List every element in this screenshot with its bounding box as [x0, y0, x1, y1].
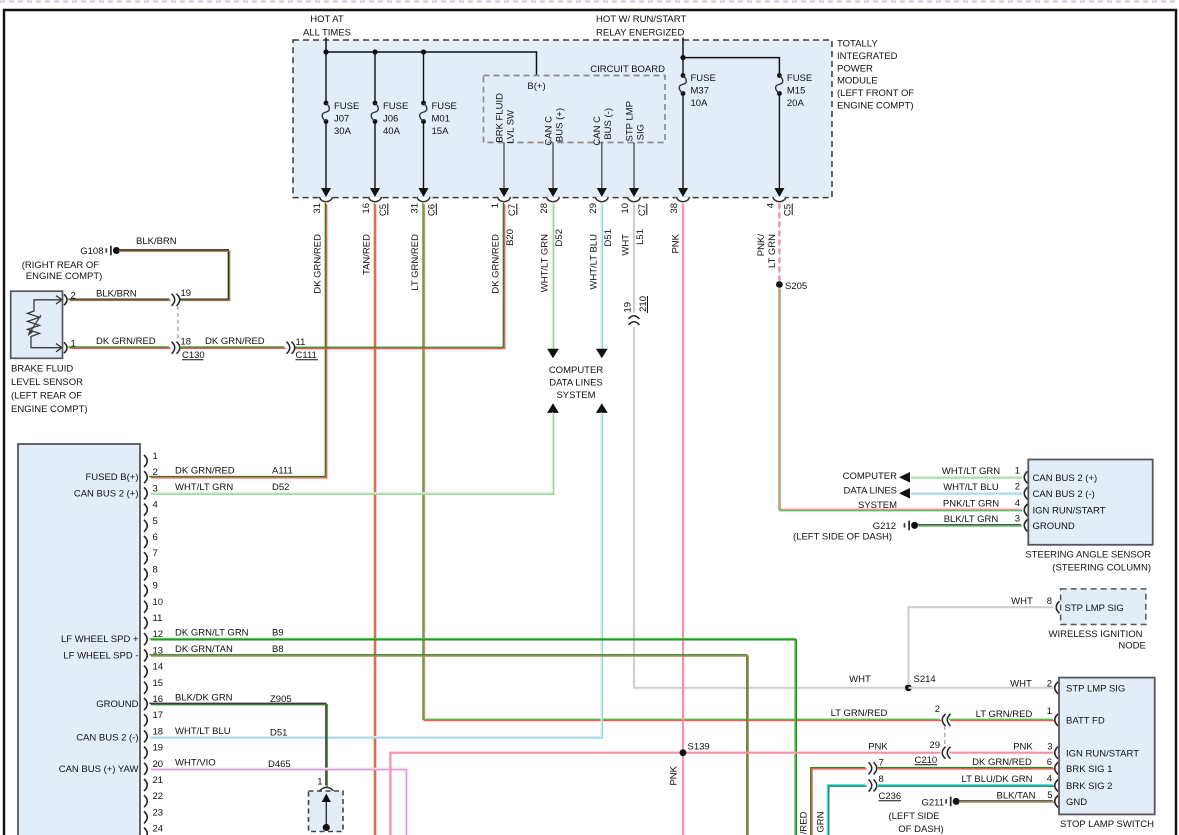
svg-text:LF WHEEL SPD -: LF WHEEL SPD -	[63, 650, 138, 661]
sensor pin 2 arrow and bracket	[56, 291, 76, 306]
svg-text:9: 9	[153, 581, 158, 592]
wire DK GRN/RED from C236 pin 7 to stop lamp BRK SIG 1	[877, 768, 1054, 769]
svg-text:DATA LINES: DATA LINES	[844, 485, 898, 496]
label GROUND	[1033, 521, 1075, 532]
svg-text:PNK: PNK	[1013, 742, 1033, 753]
svg-text:M15: M15	[787, 86, 805, 97]
wire label LT BLU/DK GRN	[962, 774, 1033, 785]
svg-text:TOTALLY: TOTALLY	[837, 39, 878, 50]
wire label PNK vertical below S139	[669, 765, 680, 785]
arrow down into computer data lines (WHT/LT BLU)	[596, 349, 608, 359]
svg-text:24: 24	[153, 824, 164, 835]
wire label LT GRN/RED vertical	[410, 234, 421, 291]
fuse M01 15A	[419, 52, 457, 197]
wire label DK GRN/TAN pin 13	[175, 644, 284, 655]
svg-text:IGN RUN/START: IGN RUN/START	[1033, 506, 1106, 517]
svg-text:WHT/LT BLU: WHT/LT BLU	[175, 726, 231, 737]
wire label DK GRN/RED vertical cut off	[799, 811, 810, 835]
wire DK GRN/TAN B8 from ABS pin 13 off page (LF wheel speed -)	[149, 655, 748, 835]
svg-text:LT GRN/RED: LT GRN/RED	[410, 234, 421, 291]
svg-text:PNK: PNK	[669, 765, 680, 785]
svg-text:WHT: WHT	[849, 674, 871, 685]
svg-text:4: 4	[153, 500, 158, 511]
wire label LT GRN/RED left of C210	[831, 708, 888, 719]
TIPM connector pin 31 C6	[410, 188, 438, 216]
ground G211	[888, 797, 959, 835]
wire label WHT left of S214	[849, 674, 871, 685]
TIPM connector pin 28	[539, 188, 560, 213]
label BRAKE FLUID LEVEL SENSOR	[11, 364, 88, 416]
pin label BRK FLUID LVL SW	[495, 93, 517, 144]
wire hot-at-all-times feed into TIPM	[325, 38, 327, 53]
svg-text:A111: A111	[272, 466, 293, 477]
wire WHT/LT GRN from TIPM pin 28 to computer data lines arrow	[552, 203, 553, 350]
svg-text:SYSTEM: SYSTEM	[858, 500, 897, 511]
svg-text:BLK/BRN: BLK/BRN	[136, 236, 177, 247]
wire label WHT at stop lamp switch	[1010, 679, 1032, 690]
splice S139	[680, 742, 710, 757]
pin label STP LMP SIG	[625, 101, 647, 141]
svg-text:(LEFT REAR OF: (LEFT REAR OF	[11, 391, 82, 402]
svg-text:WHT/LT BLU: WHT/LT BLU	[943, 482, 999, 493]
wire LT BLU/DK GRN from C236 pin 8 to stop lamp BRK SIG 2	[877, 785, 1054, 786]
svg-text:(STEERING COLUMN): (STEERING COLUMN)	[1052, 563, 1151, 574]
svg-text:28: 28	[539, 203, 550, 214]
wire label BLK/LT GRN	[944, 514, 999, 525]
wire BLK/DK GRN Z905 from ABS pin 16 to ground splice box	[149, 703, 327, 786]
svg-text:BLK/LT GRN: BLK/LT GRN	[944, 514, 999, 525]
circuit label D52 vertical	[554, 229, 565, 246]
svg-text:11: 11	[296, 337, 306, 348]
wire hot-run/start feed into TIPM	[682, 38, 684, 58]
svg-text:WHT: WHT	[1010, 679, 1032, 690]
svg-text:LT GRN/RED: LT GRN/RED	[976, 709, 1033, 720]
svg-text:10A: 10A	[691, 98, 709, 109]
label HOT W/ RUN/START RELAY ENERGIZED	[596, 14, 686, 39]
svg-text:14: 14	[153, 662, 164, 673]
wire WHT/LT GRN from computer data lines to ABS pin 3	[149, 412, 553, 494]
svg-text:TAN/RED: TAN/RED	[362, 234, 373, 275]
wire label WHT/LT GRN	[942, 466, 1000, 477]
connector C130 dashed link and label	[178, 306, 205, 361]
svg-text:STEERING ANGLE SENSOR: STEERING ANGLE SENSOR	[1025, 550, 1151, 561]
wire label WHT/LT BLU pin 18	[175, 726, 287, 739]
svg-text:7: 7	[153, 548, 158, 559]
wire label DK GRN/RED vertical at pin 31	[313, 234, 324, 294]
svg-text:LT GRN: LT GRN	[767, 234, 778, 268]
ground G212	[793, 521, 918, 543]
svg-text:HOT W/ RUN/START: HOT W/ RUN/START	[596, 14, 686, 25]
svg-text:FUSE: FUSE	[691, 73, 716, 84]
svg-text:CIRCUIT BOARD: CIRCUIT BOARD	[590, 64, 665, 75]
svg-text:18: 18	[181, 337, 192, 348]
wire WHT/LT GRN to steering sensor CAN BUS 2 (+)	[910, 477, 1022, 478]
wire PNK from TIPM pin 38 through S139 off page	[682, 204, 684, 835]
svg-text:29: 29	[929, 740, 940, 751]
svg-text:BRK SIG 1: BRK SIG 1	[1066, 764, 1112, 775]
svg-text:D52: D52	[272, 482, 289, 493]
wire BLK/LT GRN from G212 to steering sensor GROUND	[917, 525, 1022, 526]
label COMPUTER DATA LINES SYSTEM right	[843, 471, 898, 511]
ground G108	[22, 246, 120, 282]
svg-text:LEVEL SENSOR: LEVEL SENSOR	[11, 377, 83, 388]
svg-text:S214: S214	[914, 674, 936, 685]
label BRK SIG 2	[1066, 781, 1112, 792]
wire LT BLU/DK GRN from off page to C236 pin 8	[827, 785, 866, 835]
svg-text:G211: G211	[921, 798, 944, 809]
wire WHT/LT BLU to steering sensor CAN BUS 2 (-)	[910, 493, 1022, 494]
pin label CAN C BUS (-)	[592, 108, 614, 146]
wire WHT/VIO D465 from ABS pin 20 off page	[149, 768, 406, 835]
svg-text:10: 10	[620, 203, 631, 214]
svg-text:G212: G212	[873, 521, 896, 532]
svg-text:LF WHEEL SPD +: LF WHEEL SPD +	[61, 634, 139, 645]
label GND	[1066, 797, 1087, 808]
label STP LMP SIG	[1066, 684, 1125, 695]
svg-text:ENGINE COMPT): ENGINE COMPT)	[26, 271, 103, 282]
connector C210 dashed link	[944, 726, 946, 747]
svg-text:1: 1	[1015, 466, 1020, 477]
svg-text:PNK/: PNK/	[756, 234, 767, 257]
wire DK GRN/RED from TIPM pin 31 to ABS pin 2 (A111)	[149, 203, 326, 478]
svg-text:BUS (-): BUS (-)	[603, 108, 614, 140]
label TOTALLY INTEGRATED POWER MODULE	[837, 39, 914, 112]
module TIPM outline box	[293, 40, 832, 198]
svg-text:18: 18	[153, 726, 164, 737]
svg-text:5: 5	[1047, 790, 1052, 801]
wire label LT BLU/DK GRN vertical cut off	[815, 811, 826, 835]
sensor pin 1 arrow and bracket	[56, 339, 76, 354]
svg-text:31: 31	[410, 203, 421, 214]
wire DK GRN/RED sensor pin 1 to C130 pin 18	[68, 347, 170, 348]
TIPM connector pin 16 C5	[361, 188, 389, 216]
wire label PNK vertical upper	[670, 233, 681, 253]
wire WHT from S214 up to wireless ignition node STP LMP SIG	[908, 607, 1053, 685]
circuit board inner dashed box	[484, 76, 666, 143]
pin label CAN BUS 2 (+)	[74, 489, 139, 500]
svg-text:LT BLU/DK GRN: LT BLU/DK GRN	[962, 774, 1033, 785]
svg-text:OF DASH): OF DASH)	[898, 824, 943, 835]
wire branch to fuse M15	[683, 58, 779, 76]
wire label BLK/BRN upper	[136, 236, 177, 247]
svg-text:15: 15	[153, 678, 164, 689]
arrow up out of computer data lines (WHT/LT GRN)	[547, 403, 559, 413]
svg-text:CAN BUS 2 (+): CAN BUS 2 (+)	[1033, 473, 1098, 484]
pin label 3 IGN RUN/START	[1047, 742, 1052, 753]
svg-text:GND: GND	[1066, 797, 1087, 808]
wire DK GRN/RED from off page to C236 pin 7	[811, 768, 867, 835]
svg-text:BATT FD: BATT FD	[1066, 716, 1105, 727]
pin label CAN C BUS (+)	[544, 108, 566, 146]
svg-text:LVL SW: LVL SW	[506, 110, 517, 144]
label WIRELESS IGNITION NODE	[1049, 629, 1146, 652]
svg-text:G108: G108	[80, 246, 103, 257]
svg-text:DK GRN/RED: DK GRN/RED	[313, 234, 324, 294]
svg-text:B8: B8	[272, 644, 284, 655]
svg-text:CAN C: CAN C	[544, 116, 555, 146]
pin label 5 GND	[1047, 790, 1052, 801]
junction dot at fuse M37 feed	[680, 55, 685, 60]
wire PNK/LT GRN from S205 to steering angle sensor IGN RUN/START	[779, 287, 1022, 510]
svg-text:HOT AT: HOT AT	[310, 14, 344, 25]
svg-text:1: 1	[153, 451, 158, 462]
circuit label L51 vertical	[635, 229, 646, 245]
pin label 4 BRK SIG 2	[1047, 774, 1052, 785]
svg-text:S139: S139	[688, 742, 710, 753]
in-line connector C210 pin 19 on WHT wire	[623, 296, 649, 327]
svg-text:22: 22	[153, 791, 164, 802]
svg-text:BLK/TAN: BLK/TAN	[997, 791, 1036, 802]
svg-text:STP LMP SIG: STP LMP SIG	[1066, 684, 1125, 695]
pin label CAN BUS 2 (-)	[76, 732, 138, 743]
label STOP LAMP SWITCH	[1060, 819, 1154, 830]
svg-text:COMPUTER: COMPUTER	[843, 471, 898, 482]
svg-text:(RIGHT REAR OF: (RIGHT REAR OF	[22, 260, 100, 271]
wire label DK GRN/RED pin 2	[175, 466, 293, 477]
wire label BLK/DK GRN pin 16	[175, 693, 292, 706]
TIPM connector pin 4 C5	[766, 188, 794, 216]
label IGN RUN/START	[1033, 506, 1106, 517]
svg-text:B9: B9	[272, 628, 284, 639]
label HOT AT ALL TIMES	[303, 14, 351, 39]
wire PNK from C210 pin 29 to stop lamp switch IGN RUN/START	[950, 752, 1054, 754]
svg-text:11: 11	[153, 613, 163, 624]
arrow up out of computer data lines (WHT/LT BLU)	[596, 403, 608, 413]
svg-text:STOP LAMP SWITCH: STOP LAMP SWITCH	[1060, 819, 1154, 830]
wire TAN/RED from TIPM pin 16 off page bottom	[374, 203, 375, 835]
svg-text:2: 2	[935, 704, 940, 715]
svg-text:(LEFT FRONT OF: (LEFT FRONT OF	[837, 88, 914, 99]
wire PNK/LT GRN dashed from TIPM pin 4 C5 to splice S205	[778, 204, 781, 282]
svg-text:ALL TIMES: ALL TIMES	[303, 28, 351, 39]
svg-text:CAN BUS 2 (+): CAN BUS 2 (+)	[74, 489, 139, 500]
label STP LMP SIG (wireless node)	[1065, 603, 1124, 614]
svg-text:WHT: WHT	[1011, 596, 1033, 607]
label CAN BUS 2 (-)	[1033, 489, 1095, 500]
wire circuit board output can c bus+	[548, 143, 558, 197]
svg-text:8: 8	[879, 774, 884, 785]
svg-text:WHT/LT GRN: WHT/LT GRN	[540, 234, 551, 292]
wire label WHT/VIO pin 20	[175, 758, 291, 771]
svg-text:3: 3	[153, 483, 158, 494]
svg-text:NODE: NODE	[1118, 641, 1145, 652]
wire label BLK/TAN	[997, 791, 1036, 802]
svg-text:20A: 20A	[787, 98, 805, 109]
module ABS connector box	[18, 444, 140, 835]
svg-text:DK GRN/RED: DK GRN/RED	[972, 757, 1032, 768]
svg-text:19: 19	[153, 743, 164, 754]
label STEERING ANGLE SENSOR (STEERING COLUMN)	[1025, 550, 1151, 574]
junction dot bus at fuse M01	[421, 49, 426, 54]
svg-text:23: 23	[153, 807, 164, 818]
wire label DK GRN/RED	[972, 757, 1032, 768]
svg-text:J06: J06	[383, 114, 398, 125]
svg-text:CAN BUS 2 (-): CAN BUS 2 (-)	[76, 732, 138, 743]
circuit label B20	[505, 229, 516, 246]
wire label BLK/BRN lower	[96, 289, 137, 300]
svg-text:6: 6	[153, 532, 158, 543]
svg-text:M37: M37	[691, 86, 709, 97]
svg-text:BRK SIG 2: BRK SIG 2	[1066, 781, 1112, 792]
wire BLK/BRN from C130 pin 19 to sensor pin 2	[68, 299, 170, 300]
svg-text:D51: D51	[270, 727, 287, 738]
ABS connector pin brackets 1-24	[144, 451, 163, 835]
svg-text:PNK: PNK	[868, 742, 888, 753]
svg-text:BUS (+): BUS (+)	[555, 108, 566, 142]
fuse J07 30A	[321, 52, 359, 197]
svg-text:J07: J07	[334, 114, 349, 125]
wire label WHT/LT BLU	[943, 482, 999, 493]
pin label LF WHEEL SPD +	[61, 634, 139, 645]
svg-text:WHT/LT GRN: WHT/LT GRN	[175, 482, 233, 493]
svg-text:RELAY ENERGIZED: RELAY ENERGIZED	[596, 28, 684, 39]
wire DK GRN/RED C130 pin 18 to C111 pin 11	[179, 347, 285, 348]
svg-text:ENGINE COMPT): ENGINE COMPT)	[837, 101, 914, 112]
wire DK GRN/RED from TIPM pin 1 C7 (B20) to C111	[294, 203, 505, 349]
svg-text:FUSE: FUSE	[432, 101, 457, 112]
wireless node pin bracket	[1056, 601, 1059, 613]
svg-text:2: 2	[71, 291, 76, 302]
module wireless ignition node dashed box	[1061, 589, 1146, 625]
pin label 2 CAN BUS 2 (-)	[1015, 482, 1020, 493]
wire label WHT/LT BLU vertical	[589, 234, 600, 290]
svg-text:4: 4	[766, 203, 777, 208]
svg-text:BLK/BRN: BLK/BRN	[96, 289, 137, 300]
TIPM connector pin 1 C7	[490, 188, 518, 216]
pin label 8 STP LMP SIG	[1047, 596, 1052, 607]
svg-text:IGN RUN/START: IGN RUN/START	[1066, 748, 1139, 759]
pin label 2 STP LMP SIG	[1047, 679, 1052, 690]
pin label 4 IGN RUN/START	[1015, 498, 1020, 509]
svg-text:2: 2	[1015, 482, 1020, 493]
svg-text:15A: 15A	[432, 126, 450, 137]
splice S205	[776, 281, 807, 292]
TIPM connector pin 10 C7	[620, 188, 648, 216]
in-line connector C210 pin 2	[935, 704, 951, 726]
svg-text:DK GRN/TAN: DK GRN/TAN	[175, 644, 233, 655]
module stop lamp switch box	[1059, 678, 1155, 815]
svg-text:WHT/VIO: WHT/VIO	[175, 758, 216, 769]
svg-text:FUSED B(+): FUSED B(+)	[85, 472, 138, 483]
module steering angle sensor box	[1028, 460, 1152, 545]
svg-text:7: 7	[879, 757, 884, 768]
svg-text:5: 5	[153, 516, 158, 527]
circuit label D51 vertical	[603, 229, 614, 246]
svg-text:(LEFT SIDE OF DASH): (LEFT SIDE OF DASH)	[793, 532, 892, 543]
wire WHT from TIPM pin 10 C7 to S214	[634, 204, 907, 688]
svg-text:1: 1	[317, 777, 322, 788]
splice S214	[905, 674, 936, 691]
label COMPUTER DATA LINES SYSTEM center	[549, 365, 604, 401]
wire DK GRN/LT GRN B9 from ABS pin 12 off page (LF wheel speed +)	[149, 639, 796, 835]
svg-text:4: 4	[1015, 498, 1020, 509]
svg-text:SIG: SIG	[636, 124, 647, 140]
svg-text:DK GRN/RED: DK GRN/RED	[175, 466, 235, 477]
svg-text:3: 3	[1015, 514, 1020, 525]
wire circuit board output can c bus-	[597, 143, 607, 197]
wire PNK branch from S139 to off page bottom left	[390, 753, 940, 835]
pin label LF WHEEL SPD -	[63, 650, 138, 661]
svg-text:S205: S205	[785, 281, 807, 292]
svg-text:PNK/LT GRN: PNK/LT GRN	[943, 499, 999, 510]
arrow down into computer data lines (WHT/LT GRN)	[547, 349, 559, 359]
svg-text:M01: M01	[432, 114, 450, 125]
svg-text:2: 2	[1047, 679, 1052, 690]
fuse M15 20A	[775, 73, 813, 197]
junction dot bus at fuse J06	[372, 49, 377, 54]
svg-text:POWER: POWER	[837, 63, 873, 74]
svg-text:1: 1	[490, 203, 501, 208]
svg-text:LT GRN/RED: LT GRN/RED	[831, 708, 888, 719]
in-line connector C130 pin 18	[172, 337, 192, 354]
svg-text:31: 31	[312, 203, 323, 214]
svg-text:SYSTEM: SYSTEM	[556, 390, 595, 401]
label BATT FD	[1066, 716, 1105, 727]
wire B+ bus inside TIPM	[326, 52, 537, 76]
TIPM connector pin 29	[588, 188, 609, 213]
wire label PNK/ LT GRN vertical	[756, 234, 778, 268]
page top dashed trim line	[0, 0, 1179, 2]
in-line connector C130 pin 19	[172, 288, 192, 306]
wire WHT/LT BLU from TIPM pin 29 to computer data lines arrow	[601, 203, 602, 350]
in-line connector C111 pin 11	[287, 337, 319, 361]
in-line connector C210 pin 29	[915, 740, 951, 766]
wire label TAN/RED vertical	[362, 234, 373, 275]
TIPM connector pin 31	[312, 188, 333, 213]
svg-text:WHT/LT BLU: WHT/LT BLU	[589, 234, 600, 290]
pin label 1 CAN BUS 2 (+)	[1015, 466, 1020, 477]
svg-text:D51: D51	[603, 229, 614, 246]
wire label DK GRN/RED vertical at pin 1	[491, 234, 502, 294]
svg-text:L51: L51	[635, 229, 646, 245]
wire label DK GRN/RED left segment	[96, 336, 156, 347]
pin label CAN BUS (+) YAW	[59, 764, 139, 775]
svg-text:COMPUTER: COMPUTER	[549, 365, 604, 376]
arrow left into computer data lines (WHT/LT GRN)	[899, 472, 910, 483]
wire label DK GRN/LT GRN pin 12	[175, 628, 284, 639]
svg-text:DK GRN/LT GRN: DK GRN/LT GRN	[175, 628, 249, 639]
svg-text:17: 17	[153, 710, 164, 721]
in-line connector C236 pin 8	[869, 774, 902, 802]
wire label WHT/LT GRN vertical	[540, 234, 551, 292]
svg-text:FUSE: FUSE	[334, 101, 359, 112]
svg-text:FUSE: FUSE	[383, 101, 408, 112]
wire label PNK/LT GRN	[943, 499, 999, 510]
svg-text:D52: D52	[554, 229, 565, 246]
svg-text:GROUND: GROUND	[1033, 521, 1075, 532]
junction dot bus at fuse J07	[323, 49, 328, 54]
svg-text:DK GRN/RED: DK GRN/RED	[205, 336, 265, 347]
label BRK SIG 1	[1066, 764, 1112, 775]
svg-text:8: 8	[153, 564, 158, 575]
svg-text:INTEGRATED: INTEGRATED	[837, 51, 898, 62]
wire WHT/LT BLU from computer data lines to ABS pin 18	[149, 412, 602, 738]
wire circuit board output stp lmp sig	[629, 143, 639, 197]
svg-text:MODULE: MODULE	[837, 76, 878, 87]
wire LT GRN/RED from TIPM pin 31 C6 to stop lamp switch BATT FD	[423, 203, 1054, 721]
svg-text:B20: B20	[505, 229, 516, 246]
svg-text:19: 19	[623, 302, 634, 313]
svg-text:BRK FLUID: BRK FLUID	[495, 93, 506, 143]
svg-text:3: 3	[1047, 742, 1052, 753]
pin label FUSED B(+)	[85, 472, 138, 483]
svg-text:LT BLU/DK GRN: LT BLU/DK GRN	[815, 811, 826, 835]
wire BLK/BRN from G108 to C130 pin 19	[118, 250, 230, 301]
svg-text:4: 4	[1047, 774, 1052, 785]
svg-text:DK GRN/RED: DK GRN/RED	[491, 234, 502, 294]
svg-text:1: 1	[1047, 706, 1052, 717]
svg-text:40A: 40A	[383, 126, 401, 137]
